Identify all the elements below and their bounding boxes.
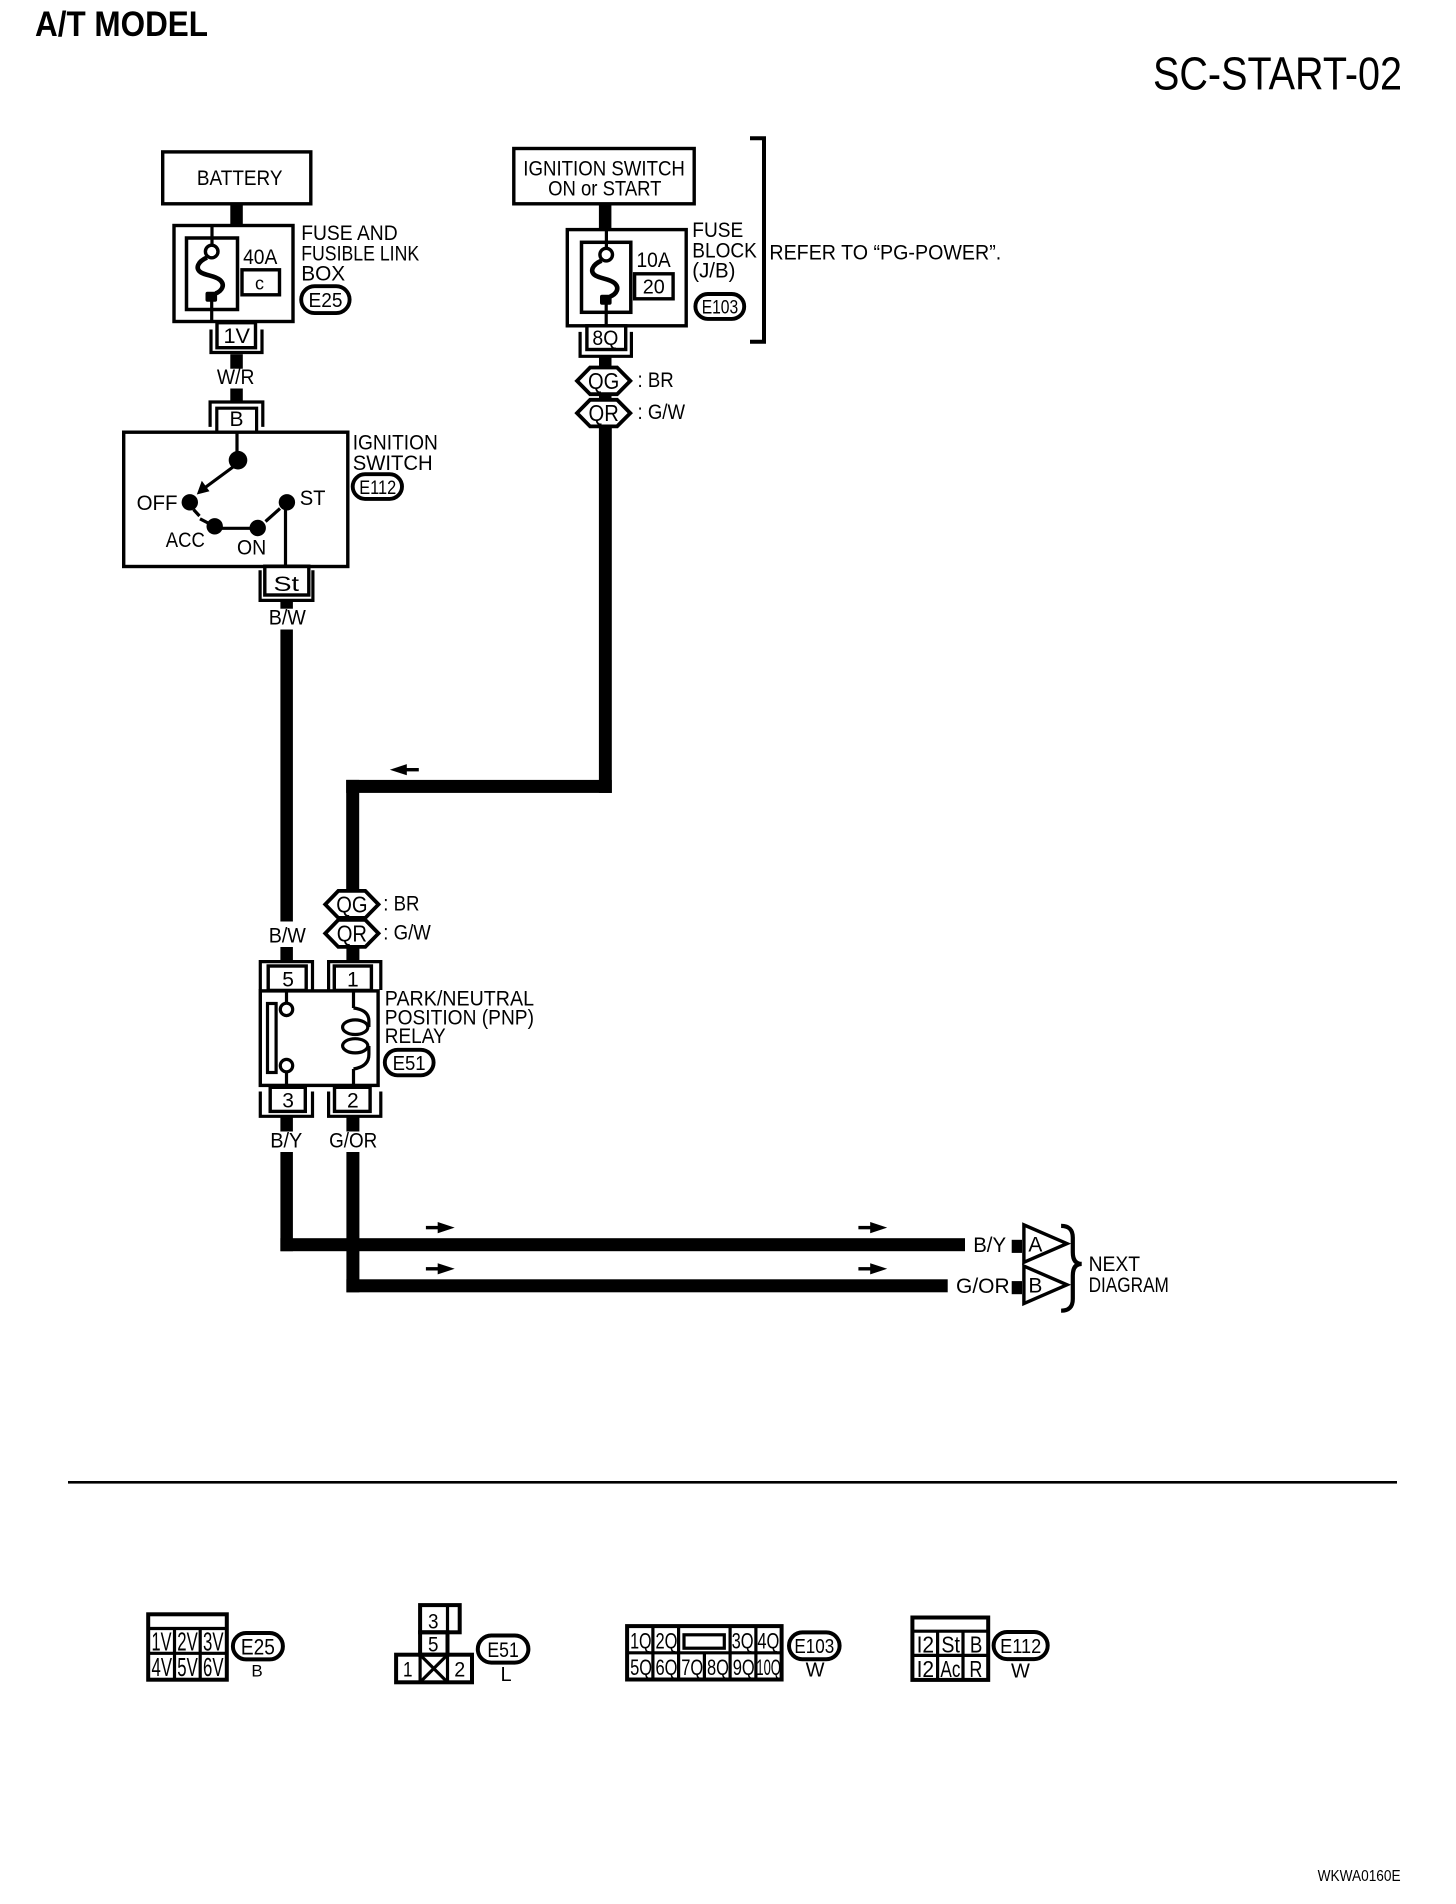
svg-text:W: W	[806, 1660, 825, 1682]
wire W/R to B	[230, 389, 243, 403]
svg-text:10Q: 10Q	[756, 1655, 781, 1680]
label FUSE AND FUSIBLE LINK BOX	[301, 222, 419, 286]
connector pin 2	[329, 1087, 381, 1116]
svg-text:QR: QR	[337, 920, 367, 946]
terminal square A	[1012, 1240, 1022, 1253]
svg-text:1: 1	[403, 1659, 413, 1682]
fusible link element symbol	[198, 227, 223, 320]
wire B/Y vertical	[280, 1152, 293, 1251]
wire ACC to ON	[222, 527, 250, 530]
svg-text:2: 2	[454, 1659, 465, 1682]
svg-text:ON: ON	[237, 537, 266, 560]
fuse slot box c	[242, 270, 280, 295]
connector oval E103	[695, 294, 744, 319]
wire QR to pin 1	[346, 947, 359, 963]
wire G/OR horizontal to next diagram	[346, 1279, 947, 1292]
common contact dot	[229, 451, 248, 470]
svg-text:L: L	[501, 1664, 512, 1686]
wire B/Y horizontal to next diagram	[280, 1238, 965, 1251]
wire QG to QR	[599, 394, 612, 400]
wire B/W stub to pin 5	[280, 947, 293, 963]
label NEXT DIAGRAM	[1089, 1253, 1169, 1297]
contact dot ST	[279, 494, 295, 510]
connector pin 3	[260, 1087, 312, 1116]
svg-text:B/Y: B/Y	[973, 1234, 1006, 1257]
svg-text:E51: E51	[393, 1053, 426, 1075]
svg-text:1Q: 1Q	[630, 1629, 652, 1654]
svg-text:1: 1	[347, 968, 359, 991]
wire battery to fuse box	[230, 204, 243, 226]
svg-text:B: B	[970, 1632, 983, 1658]
label FUSE BLOCK (J/B)	[692, 219, 757, 283]
connector oval E51 pinout	[478, 1636, 529, 1687]
OFF contact tail	[194, 510, 200, 517]
wire B to common contact	[235, 433, 238, 455]
svg-text:ON or START: ON or START	[548, 178, 662, 201]
connector triangle A	[1024, 1225, 1067, 1262]
wire down to QG	[346, 780, 359, 891]
svg-text:E51: E51	[487, 1639, 518, 1662]
svg-text:WKWA0160E: WKWA0160E	[1318, 1868, 1401, 1885]
svg-text:5Q: 5Q	[630, 1655, 652, 1680]
terminal square B	[1012, 1281, 1022, 1294]
wire stub below St	[280, 602, 293, 609]
svg-text:8Q: 8Q	[592, 327, 618, 350]
svg-text:3: 3	[282, 1089, 294, 1112]
svg-text:: G/W: : G/W	[383, 922, 431, 945]
svg-text:3: 3	[428, 1610, 439, 1633]
splice QG : BR lower	[325, 891, 419, 918]
pinout connector E103	[627, 1626, 782, 1680]
flow arrow right 3	[426, 1263, 455, 1274]
svg-text:G/OR: G/OR	[329, 1129, 377, 1152]
svg-text:QR: QR	[589, 400, 619, 426]
svg-text:B: B	[1028, 1275, 1042, 1298]
pinout connector E51	[396, 1605, 472, 1682]
svg-text:4V: 4V	[152, 1652, 173, 1682]
splice QR : G/W	[577, 400, 685, 427]
PNP relay box E51	[260, 991, 378, 1086]
svg-text:3Q: 3Q	[732, 1629, 754, 1654]
wire ST to St terminal	[284, 508, 287, 565]
svg-text:BATTERY: BATTERY	[197, 167, 283, 190]
wire 8Q to QG	[599, 356, 612, 369]
connector oval E25	[301, 286, 349, 313]
svg-text:SWITCH: SWITCH	[353, 452, 433, 475]
svg-text:9Q: 9Q	[733, 1655, 755, 1680]
wire horizontal jog	[346, 780, 612, 793]
svg-text:REFER TO “PG-POWER”.: REFER TO “PG-POWER”.	[769, 241, 1001, 264]
separator line	[68, 1481, 1397, 1484]
svg-text:4Q: 4Q	[757, 1629, 779, 1654]
brace to next diagram	[1061, 1226, 1082, 1311]
svg-text:ACC: ACC	[166, 529, 205, 552]
relay contact bar	[268, 1004, 277, 1073]
svg-text:c: c	[255, 274, 264, 294]
svg-text:B: B	[251, 1662, 262, 1681]
svg-text:1V: 1V	[224, 325, 251, 348]
svg-text:40A: 40A	[243, 246, 277, 269]
flow arrow right 1	[426, 1222, 455, 1233]
splice QG : BR	[577, 368, 674, 395]
svg-text:: G/W: : G/W	[638, 401, 686, 424]
svg-text:: BR: : BR	[383, 893, 419, 916]
svg-text:DIAGRAM: DIAGRAM	[1089, 1274, 1169, 1297]
empty slot box	[684, 1635, 724, 1648]
svg-text:8Q: 8Q	[707, 1655, 729, 1680]
ignition switch box E112	[124, 432, 348, 566]
connector oval E112	[353, 474, 402, 499]
relay contact circle bottom	[280, 1059, 292, 1071]
wire B/W long vertical	[280, 630, 293, 922]
svg-text:E25: E25	[241, 1634, 275, 1659]
pinout connector E25	[148, 1614, 227, 1682]
ACC contact tail	[200, 519, 210, 524]
connector oval E51	[385, 1050, 434, 1076]
refer bracket	[750, 138, 764, 342]
svg-text:St: St	[274, 573, 300, 596]
svg-text:20: 20	[643, 277, 665, 299]
connector triangle B	[1024, 1266, 1067, 1303]
svg-text:: BR: : BR	[638, 369, 674, 392]
svg-text:W: W	[1011, 1661, 1030, 1683]
svg-text:G/OR: G/OR	[956, 1275, 1010, 1298]
svg-text:5: 5	[282, 968, 294, 991]
svg-text:I2: I2	[917, 1656, 935, 1682]
svg-text:QG: QG	[588, 368, 619, 394]
label PARK/NEUTRAL POSITION (PNP) RELAY	[385, 988, 534, 1048]
svg-text:E25: E25	[309, 290, 343, 312]
fusible link FL inner box	[187, 238, 238, 310]
wire stub pin 2	[346, 1116, 359, 1131]
svg-text:SC-START-02: SC-START-02	[1153, 48, 1402, 100]
connector 8Q	[580, 326, 631, 357]
connector 1V	[211, 323, 262, 353]
svg-text:A/T MODEL: A/T MODEL	[35, 5, 208, 44]
switch arm arrow to OFF	[197, 467, 233, 495]
svg-text:(J/B): (J/B)	[692, 260, 735, 283]
svg-text:OFF: OFF	[137, 492, 178, 515]
svg-text:E103: E103	[702, 298, 739, 319]
svg-text:B/Y: B/Y	[270, 1129, 302, 1152]
svg-text:I2: I2	[917, 1632, 935, 1658]
connector oval E25 pinout	[233, 1633, 283, 1681]
contact dot OFF	[182, 494, 198, 510]
fuse block J/B box E103	[567, 230, 686, 326]
svg-text:St: St	[941, 1632, 960, 1658]
relay contact wire bottom	[285, 1071, 288, 1085]
svg-text:R: R	[969, 1656, 982, 1682]
fuse number box 20	[635, 274, 674, 299]
fuse element symbol	[592, 231, 617, 325]
svg-text:B: B	[230, 408, 244, 431]
relay contact circle top	[280, 1003, 292, 1015]
wire to fuse block	[599, 204, 612, 230]
svg-text:10A: 10A	[637, 249, 671, 272]
connector oval E103 pinout	[789, 1632, 840, 1681]
flow arrow right 2	[858, 1222, 887, 1233]
svg-text:2Q: 2Q	[656, 1629, 678, 1654]
connector pin 5	[260, 962, 312, 992]
connector St	[260, 566, 313, 600]
wire 1V to W/R	[230, 354, 243, 369]
label IGNITION SWITCH	[353, 432, 438, 475]
connector pin 1	[329, 962, 381, 992]
splice QR : G/W lower	[325, 920, 431, 947]
svg-text:5V: 5V	[177, 1652, 198, 1682]
contact dot ON	[250, 520, 266, 536]
svg-text:BOX: BOX	[301, 263, 345, 286]
relay contact wire top	[285, 992, 288, 1004]
svg-text:A: A	[1028, 1234, 1042, 1257]
svg-text:RELAY: RELAY	[385, 1025, 446, 1048]
svg-text:QG: QG	[336, 891, 367, 917]
svg-text:B/W: B/W	[269, 607, 306, 630]
svg-text:6V: 6V	[203, 1652, 224, 1682]
ignition switch ON or START source box	[514, 149, 694, 204]
wire ON to ST	[266, 509, 281, 522]
svg-text:ST: ST	[300, 487, 326, 510]
flow arrow left	[390, 764, 419, 775]
contact dot ACC	[207, 518, 223, 534]
svg-text:Ac: Ac	[940, 1656, 960, 1682]
svg-text:NEXT: NEXT	[1089, 1253, 1141, 1276]
svg-text:2: 2	[347, 1089, 359, 1112]
connector B	[210, 402, 263, 432]
svg-text:E112: E112	[1000, 1636, 1041, 1658]
flow arrow right 4	[858, 1263, 887, 1274]
wire stub pin 3	[280, 1116, 293, 1131]
pinout connector E112	[912, 1618, 988, 1682]
blocked pin X	[422, 1656, 447, 1680]
fuse box E25 outline	[174, 226, 293, 322]
battery B1	[163, 152, 311, 204]
wire right branch down and left	[599, 426, 612, 793]
svg-text:E112: E112	[359, 478, 396, 499]
svg-text:B/W: B/W	[269, 924, 306, 947]
svg-text:W/R: W/R	[217, 366, 255, 389]
svg-text:6Q: 6Q	[656, 1655, 678, 1680]
svg-text:E103: E103	[794, 1636, 834, 1658]
fuse 10A inner box	[582, 242, 631, 312]
wire G/OR vertical	[346, 1152, 359, 1292]
connector oval E112 pinout	[994, 1632, 1048, 1683]
svg-text:7Q: 7Q	[681, 1655, 703, 1680]
relay coil	[343, 992, 369, 1085]
